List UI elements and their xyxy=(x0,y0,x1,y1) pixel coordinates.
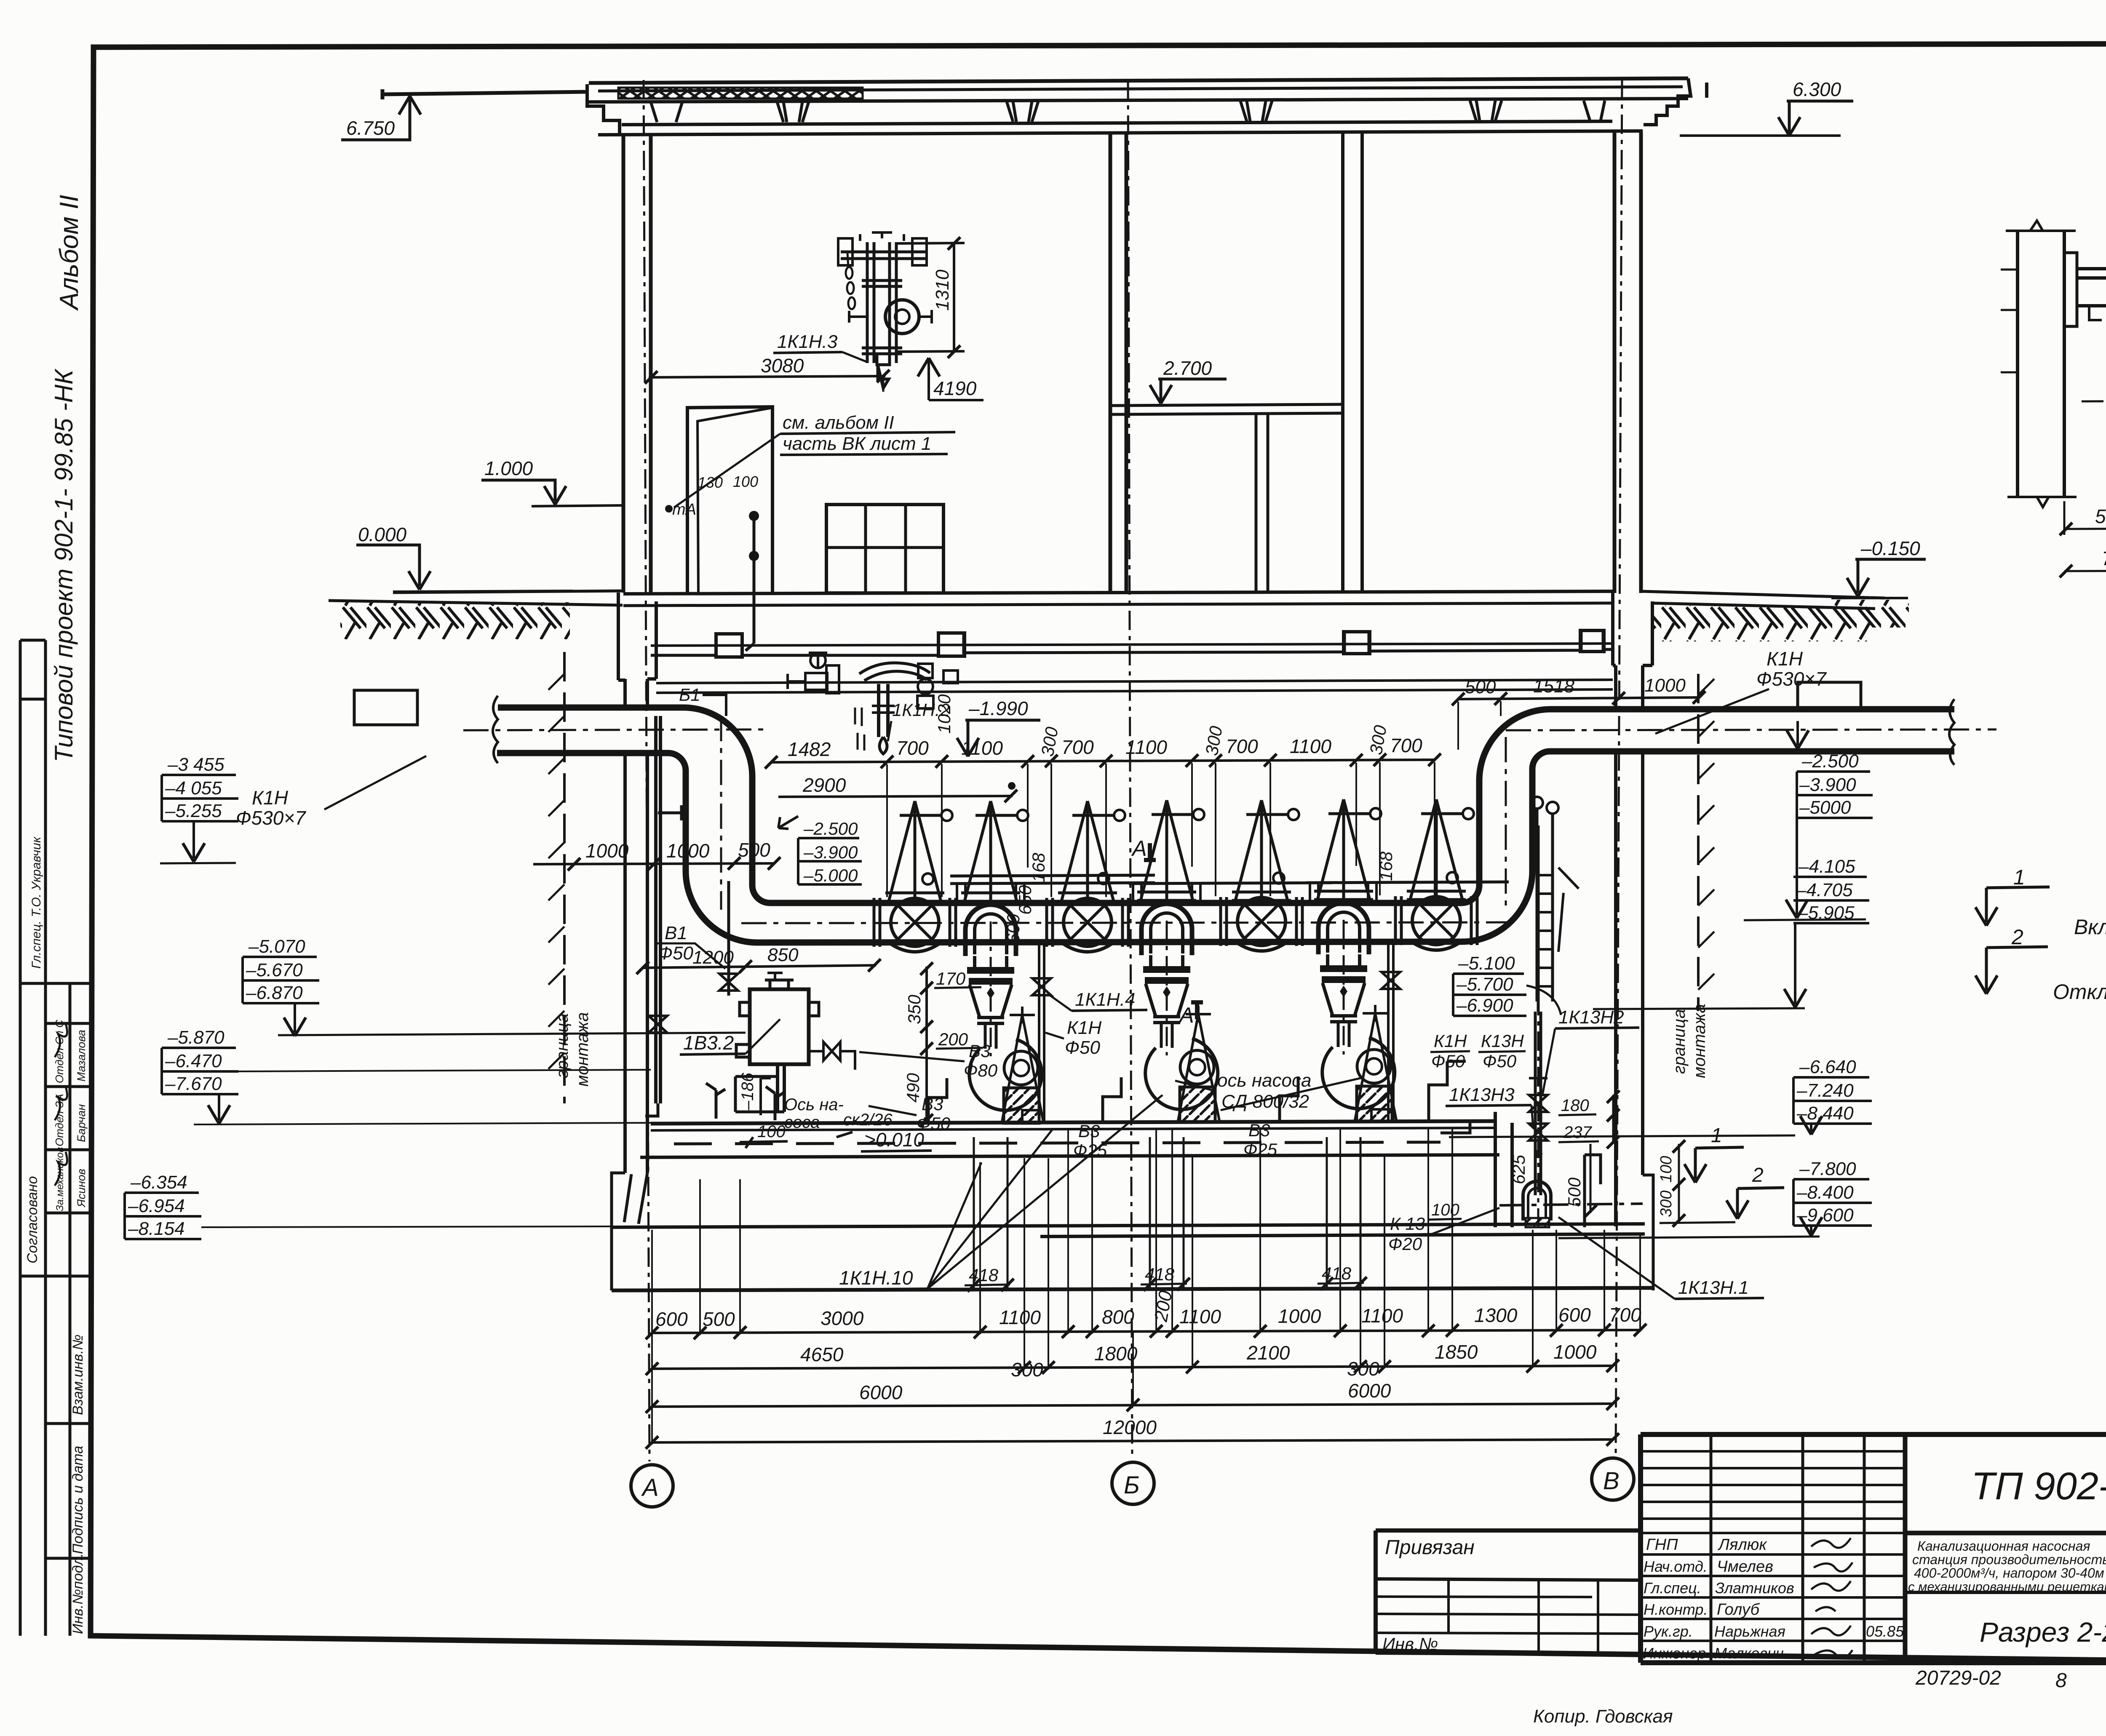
boundary line montage right xyxy=(1670,674,1714,1078)
svg-text:1100: 1100 xyxy=(999,1306,1041,1328)
svg-text:Рук.гр.: Рук.гр. xyxy=(1644,1623,1693,1640)
right riser elbow xyxy=(1462,699,1996,942)
K13 riser pipe xyxy=(1529,825,1547,1228)
dim 4190 xyxy=(918,358,984,400)
svg-text:1: 1 xyxy=(2013,865,2025,889)
left elevation stack -5.870 xyxy=(162,1027,651,1124)
dim 1310 xyxy=(897,237,965,358)
A-A dim 500 xyxy=(2060,501,2106,535)
title big cell divider xyxy=(1905,1434,2106,1663)
svg-text:168: 168 xyxy=(1029,852,1048,882)
svg-text:1100: 1100 xyxy=(1179,1306,1221,1327)
svg-text:–3.900: –3.900 xyxy=(1799,775,1856,795)
elevation 6.300 xyxy=(1680,78,1853,136)
drain pipe under V3 xyxy=(1371,943,1400,1121)
svg-text:А: А xyxy=(641,1474,659,1501)
svg-text:–8.440: –8.440 xyxy=(1796,1103,1854,1124)
svg-text:2: 2 xyxy=(1752,1164,1764,1186)
roof second chord xyxy=(598,87,1683,91)
svg-text:Ф50: Ф50 xyxy=(1065,1037,1100,1058)
svg-text:–4.105: –4.105 xyxy=(1798,856,1855,877)
svg-text:–5.700: –5.700 xyxy=(1456,974,1513,995)
svg-text:–2.500: –2.500 xyxy=(1801,751,1859,772)
level -1.990 xyxy=(957,697,1040,756)
hose pipe at sump riser xyxy=(1429,1061,1466,1120)
svg-text:350: 350 xyxy=(904,994,924,1024)
slope label xyxy=(837,1129,932,1151)
svg-text:100: 100 xyxy=(1431,1201,1459,1219)
svg-text:–7.240: –7.240 xyxy=(1796,1080,1854,1101)
svg-text:монтажа: монтажа xyxy=(573,1012,592,1087)
svg-text:Нарьжная: Нарьжная xyxy=(1714,1623,1785,1640)
dim row 500 1518 1000 xyxy=(1452,675,1705,750)
elevation 0.000 xyxy=(356,523,573,592)
title block xyxy=(1641,1434,2106,1663)
elevation stack -2.500 -3.900 -5000 right xyxy=(1786,721,1873,918)
svg-text:Копир. Гдовская: Копир. Гдовская xyxy=(1533,1706,1673,1727)
svg-text:Златников: Златников xyxy=(1715,1579,1794,1597)
svg-text:ГНП: ГНП xyxy=(1646,1536,1678,1554)
svg-text:700: 700 xyxy=(1609,1304,1641,1326)
roof cross hatch band xyxy=(618,88,863,99)
dim 418 pump3 xyxy=(1318,1137,1367,1290)
svg-text:К1Н: К1Н xyxy=(252,787,289,809)
step mark 1 xyxy=(1684,1124,1744,1183)
svg-text:6.750: 6.750 xyxy=(346,117,395,139)
suction manifold xyxy=(741,903,1516,943)
level line -6.640 xyxy=(1449,1135,1795,1137)
svg-text:700: 700 xyxy=(1390,734,1422,756)
svg-text:1: 1 xyxy=(1711,1124,1722,1147)
crossbar over pumps xyxy=(950,875,1509,884)
svg-text:–5.100: –5.100 xyxy=(1458,953,1515,974)
svg-text:В1: В1 xyxy=(665,923,687,943)
elevation stack -7.800 -8.400 -9.600 xyxy=(1793,1159,1872,1236)
point tA riser xyxy=(665,501,759,651)
svg-text:–4.705: –4.705 xyxy=(1796,880,1853,900)
elevation 2.700 xyxy=(1150,357,1227,403)
svg-text:К13Н: К13Н xyxy=(1481,1031,1524,1051)
svg-text:Ф50: Ф50 xyxy=(658,943,693,964)
svg-text:–2.500: –2.500 xyxy=(803,819,858,839)
svg-text:100: 100 xyxy=(733,473,758,490)
svg-text:Согласовано: Согласовано xyxy=(24,1176,40,1263)
svg-text:см. альбом II: см. альбом II xyxy=(783,412,894,433)
label 1K1N.4 xyxy=(1048,989,1147,1011)
actuator cone above V3 xyxy=(1232,800,1299,900)
actuator cone above V2 xyxy=(1058,801,1125,901)
svg-text:Инженер: Инженер xyxy=(1643,1645,1706,1662)
svg-text:с механизированными решетками: с механизированными решетками xyxy=(1908,1579,2106,1594)
svg-text:170: 170 xyxy=(936,969,966,988)
svg-text:1482: 1482 xyxy=(788,738,831,760)
svg-text:–6.640: –6.640 xyxy=(1799,1057,1856,1077)
actuator cone above V4 xyxy=(1407,799,1474,900)
gate valve V4 xyxy=(1395,896,1477,950)
elevation stack -6.640 -7.240 -8.440 xyxy=(1793,1057,1872,1135)
actuator cone above pump3 xyxy=(1314,799,1381,900)
label V3 f25 second xyxy=(1243,1120,1277,1159)
dim row 1000 1000 500 xyxy=(533,839,780,871)
extension lines manifold dims xyxy=(887,762,1435,897)
svg-text:700: 700 xyxy=(2102,548,2106,569)
svg-text:500: 500 xyxy=(2095,505,2106,527)
svg-text:>0.010: >0.010 xyxy=(864,1129,924,1151)
svg-text:4650: 4650 xyxy=(800,1343,844,1365)
label 1K1N.10 xyxy=(836,1095,1163,1290)
pump 3 xyxy=(1318,903,1397,1122)
svg-text:2900: 2900 xyxy=(802,774,846,796)
label 1K1N.2 xyxy=(888,700,950,741)
dim 418 pump2 xyxy=(1141,1137,1190,1291)
svg-text:А: А xyxy=(1131,836,1147,861)
sidebar row rules xyxy=(20,640,92,1558)
pump 2 xyxy=(1141,904,1220,1123)
svg-text:–5.070: –5.070 xyxy=(248,936,305,957)
svg-text:1200: 1200 xyxy=(692,947,734,968)
binding box Privyazan xyxy=(1376,1530,1641,1654)
svg-text:1К13Н3: 1К13Н3 xyxy=(1449,1084,1515,1105)
ground floor slab xyxy=(623,591,1614,657)
svg-text:1100: 1100 xyxy=(961,737,1003,759)
svg-text:Включение насоса „ГНОМ“ 10-10: Включение насоса „ГНОМ“ 10-10 xyxy=(2074,915,2106,939)
elevation stack -5.100 -5.700 -6.900 xyxy=(1453,953,1561,1016)
svg-text:К1Н: К1Н xyxy=(1434,1031,1467,1051)
label 1K13N.1 xyxy=(1558,1217,1764,1299)
actuator cone above V1 xyxy=(885,801,952,901)
svg-text:Ясинов: Ясинов xyxy=(75,1169,88,1208)
svg-text:700: 700 xyxy=(1226,735,1258,757)
svg-text:Нач.отд.: Нач.отд. xyxy=(1644,1558,1708,1575)
wash tank 1V3.2 xyxy=(735,973,855,1112)
svg-text:1К1Н.4: 1К1Н.4 xyxy=(1075,989,1135,1010)
svg-text:490: 490 xyxy=(903,1073,923,1103)
basement floor lines xyxy=(612,1121,1653,1290)
svg-text:монтажа: монтажа xyxy=(1690,1004,1709,1078)
svg-text:6.300: 6.300 xyxy=(1793,78,1841,100)
svg-text:За.механиков: За.механиков xyxy=(54,1147,66,1211)
step mark 2 xyxy=(1726,1164,1784,1219)
svg-text:граница: граница xyxy=(1670,1009,1689,1074)
svg-text:–7.670: –7.670 xyxy=(165,1074,222,1094)
basement left wall xyxy=(612,679,647,1290)
roof ribs xyxy=(651,101,1605,122)
B1 drop pipe to tank xyxy=(719,881,738,996)
svg-text:600: 600 xyxy=(1003,913,1023,943)
svg-text:1К13Н2: 1К13Н2 xyxy=(1558,1007,1624,1028)
svg-text:Альбом II: Альбом II xyxy=(55,195,84,311)
pump 1 xyxy=(965,905,1044,1124)
svg-text:1000: 1000 xyxy=(666,840,710,862)
svg-text:Ф50: Ф50 xyxy=(1483,1051,1517,1071)
svg-text:К 13: К 13 xyxy=(1390,1214,1425,1234)
door leaf xyxy=(687,407,772,594)
svg-text:700: 700 xyxy=(896,737,929,759)
svg-text:1300: 1300 xyxy=(1474,1304,1518,1326)
ceiling beam sections xyxy=(716,634,742,657)
svg-text:1310: 1310 xyxy=(932,270,953,311)
svg-text:20729-02: 20729-02 xyxy=(1915,1667,2001,1689)
left eave steps xyxy=(587,84,620,135)
label V3 f25 first xyxy=(1073,1121,1107,1160)
svg-text:1800: 1800 xyxy=(1094,1343,1138,1365)
svg-text:0.000: 0.000 xyxy=(358,523,407,545)
svg-text:Типовой проект 902-1- 99.85: Типовой проект 902-1- 99.85 -НК xyxy=(50,368,78,762)
svg-text:–4 055: –4 055 xyxy=(165,778,222,799)
left wall column xyxy=(623,135,651,594)
svg-text:–6.354: –6.354 xyxy=(130,1172,187,1193)
svg-text:–6.900: –6.900 xyxy=(1456,995,1513,1016)
label V3 f80 xyxy=(859,1041,998,1080)
svg-text:625: 625 xyxy=(1509,1154,1529,1184)
svg-text:Барчан: Барчан xyxy=(75,1104,88,1142)
dim 418 pump1 xyxy=(965,1137,1014,1292)
axis circle A xyxy=(631,1465,673,1507)
valve stand 1K1N.3 xyxy=(838,232,932,388)
svg-text:1К1Н.10: 1К1Н.10 xyxy=(839,1267,913,1289)
extension lines to dims xyxy=(652,1127,1640,1445)
svg-text:1000: 1000 xyxy=(1553,1341,1597,1363)
signatures xyxy=(1811,1538,1852,1658)
basement ceiling with downstands xyxy=(651,631,1613,655)
axis circle V xyxy=(1592,1458,1634,1500)
svg-text:2100: 2100 xyxy=(1246,1342,1290,1364)
ladder xyxy=(1531,797,1579,1002)
svg-text:3000: 3000 xyxy=(820,1307,864,1329)
svg-text:05.85: 05.85 xyxy=(1866,1623,1904,1640)
label B1 f50 xyxy=(655,923,725,969)
dim 1200 850 xyxy=(636,945,881,974)
svg-text:–6.470: –6.470 xyxy=(165,1051,222,1071)
elevation stack -4.105 -4.705 -5.905 xyxy=(1784,856,1869,1007)
label K1N f530x7 left xyxy=(236,756,426,829)
svg-text:–186: –186 xyxy=(738,1072,757,1111)
left elbow to manifold xyxy=(686,871,770,943)
svg-text:2.700: 2.700 xyxy=(1163,357,1212,379)
svg-text:–8.400: –8.400 xyxy=(1796,1182,1854,1203)
svg-text:Канализационная насосная: Канализационная насосная xyxy=(1917,1538,2090,1554)
title outer xyxy=(1641,1434,2106,1663)
small faucet symbols xyxy=(706,1083,785,1120)
label K13 f20 xyxy=(1386,1208,1499,1254)
svg-text:граница: граница xyxy=(553,1013,572,1078)
svg-text:1850: 1850 xyxy=(1435,1341,1478,1363)
svg-text:Ф530×7: Ф530×7 xyxy=(236,807,306,829)
sidebar vertical rules xyxy=(20,640,70,1636)
left elevation stack -5.070 xyxy=(243,936,746,1036)
label V3 f50 xyxy=(869,1094,951,1133)
svg-text:500: 500 xyxy=(1465,677,1496,697)
roof rib underside xyxy=(622,121,1612,125)
actuator cone above pump2 xyxy=(1137,800,1204,900)
note pump GNOM off xyxy=(1975,925,2106,1004)
pipe fitting cluster 1K1N.2 xyxy=(788,653,958,754)
svg-text:–5.905: –5.905 xyxy=(1797,903,1855,923)
svg-text:600: 600 xyxy=(655,1308,688,1330)
svg-text:Мазалова: Мазалова xyxy=(75,1030,88,1082)
svg-text:соса: соса xyxy=(784,1113,820,1132)
center column (axis B) xyxy=(1110,132,1126,594)
gate valve V1 xyxy=(874,898,956,952)
svg-text:–0.150: –0.150 xyxy=(1860,537,1920,559)
level line -5.905 right xyxy=(1593,1008,1805,1009)
gate valve V2 xyxy=(1047,898,1128,952)
svg-text:–1.990: –1.990 xyxy=(968,697,1028,719)
level line -8.440 low xyxy=(1558,1237,1820,1238)
svg-text:237: 237 xyxy=(1563,1123,1592,1142)
svg-text:Гл.спец.: Гл.спец. xyxy=(1644,1579,1701,1597)
svg-text:В3: В3 xyxy=(922,1094,943,1114)
level box -2.500 -3.900 -5.000 left xyxy=(778,816,862,885)
roof slab top line xyxy=(588,99,1688,102)
svg-text:700: 700 xyxy=(1061,736,1094,758)
svg-text:Взам.инв.№: Взам.инв.№ xyxy=(70,1335,86,1415)
svg-text:Разрез 2-2: Разрез 2-2 xyxy=(1980,1616,2106,1648)
svg-text:300: 300 xyxy=(1011,1359,1043,1381)
label K1N f530x7 right xyxy=(1655,648,1827,734)
right eave steps xyxy=(1644,78,1707,125)
svg-text:Ф80: Ф80 xyxy=(964,1060,998,1080)
svg-text:6000: 6000 xyxy=(1348,1380,1391,1402)
thrust block right xyxy=(1798,682,1861,710)
left sidebar stamp column xyxy=(20,195,92,1636)
svg-text:Лялюк: Лялюк xyxy=(1717,1536,1767,1554)
svg-text:100: 100 xyxy=(757,1122,786,1141)
svg-text:В3: В3 xyxy=(969,1041,990,1061)
A-A dim 700 xyxy=(2060,548,2106,577)
roof assembly xyxy=(382,78,1707,135)
left wall axis xyxy=(644,80,649,1461)
right wall basement pedestal xyxy=(1613,593,1652,665)
note pump GNOM on xyxy=(1975,865,2106,939)
svg-text:Ф50: Ф50 xyxy=(1431,1051,1465,1071)
svg-text:В3: В3 xyxy=(1248,1120,1270,1140)
label K1N f50 mid xyxy=(1045,1018,1101,1058)
sub partition below shelf xyxy=(1256,414,1268,593)
svg-text:400-2000м³/ч, напором 30-40м: 400-2000м³/ч, напором 30-40м xyxy=(1914,1565,2104,1581)
elevation -0.150 xyxy=(1831,537,1926,628)
svg-text:300: 300 xyxy=(1347,1358,1379,1380)
right wall footing xyxy=(1643,1175,1653,1290)
svg-text:1К1Н.3: 1К1Н.3 xyxy=(777,331,838,352)
svg-text:Ф530×7: Ф530×7 xyxy=(1756,668,1827,690)
axis pump label xyxy=(784,1095,893,1132)
left elevation stack -6.354 xyxy=(125,1123,651,1239)
gate valve V3 xyxy=(1221,897,1302,951)
svg-text:2: 2 xyxy=(2011,925,2023,949)
svg-text:4190: 4190 xyxy=(933,377,977,399)
svg-text:–6.954: –6.954 xyxy=(128,1196,185,1216)
dim 100 xyxy=(740,1122,788,1148)
svg-text:850: 850 xyxy=(767,945,799,965)
axis circle B xyxy=(1112,1462,1154,1504)
svg-text:ТП 902-1 – 99.85-НК: ТП 902-1 – 99.85-НК xyxy=(1971,1465,2106,1508)
svg-text:500: 500 xyxy=(1564,1177,1584,1207)
svg-text:–5.870: –5.870 xyxy=(167,1027,224,1048)
svg-text:Ф50: Ф50 xyxy=(917,1114,951,1133)
svg-text:–5.255: –5.255 xyxy=(165,801,222,821)
svg-text:1000: 1000 xyxy=(1278,1305,1321,1327)
svg-text:Отключение насоса „ГНОМ“ 10-10: Отключение насоса „ГНОМ“ 10-10 xyxy=(2053,980,2106,1004)
building columns and walls xyxy=(618,79,1652,1461)
svg-text:1.000: 1.000 xyxy=(484,457,533,479)
svg-text:ск2/26: ск2/26 xyxy=(843,1111,893,1129)
svg-text:1В3.2: 1В3.2 xyxy=(683,1032,734,1054)
svg-text:В: В xyxy=(1603,1467,1620,1495)
basement ceiling soffit line xyxy=(651,644,1613,646)
right wall column xyxy=(1614,131,1641,593)
hose pipe at pump 1 xyxy=(928,1076,1298,1122)
svg-text:1К13Н.1: 1К13Н.1 xyxy=(1678,1277,1749,1298)
svg-text:500: 500 xyxy=(703,1308,735,1330)
label 1K13N3 xyxy=(1446,1084,1533,1129)
svg-text:8: 8 xyxy=(2055,1669,2067,1692)
sidebar signatures xyxy=(55,1023,67,1186)
left wall footing xyxy=(612,1173,647,1290)
svg-text:Привязан: Привязан xyxy=(1385,1536,1475,1559)
svg-text:–3.900: –3.900 xyxy=(803,842,858,862)
staff grid verticals xyxy=(1711,1434,1864,1663)
label 1V3.2 xyxy=(680,1019,780,1055)
staff grid rows xyxy=(1641,1451,1905,1641)
note see album II xyxy=(674,412,955,507)
svg-text:1000: 1000 xyxy=(1644,675,1686,696)
thrust block left xyxy=(354,690,417,725)
svg-text:–5.670: –5.670 xyxy=(246,960,303,980)
svg-text:Чмелев: Чмелев xyxy=(1717,1558,1773,1576)
bottom dim row 1 xyxy=(646,1289,1646,1339)
bottom dim row 3 xyxy=(646,1380,1619,1413)
svg-text:–5000: –5000 xyxy=(1799,797,1851,818)
section mark A lower xyxy=(1178,1002,1203,1028)
labels K1N K13N f50 xyxy=(1430,1031,1526,1071)
section mark A upper xyxy=(1131,836,1156,861)
right wall axis xyxy=(1616,79,1622,1455)
A-A wall xyxy=(2001,221,2077,507)
svg-text:К1Н: К1Н xyxy=(1767,648,1803,670)
elevation 6.750 xyxy=(341,96,421,140)
svg-text:Отдел Сп С: Отдел Сп С xyxy=(53,1020,66,1083)
left canopy line xyxy=(382,89,587,99)
svg-text:1020: 1020 xyxy=(934,694,954,734)
svg-text:800: 800 xyxy=(1102,1306,1134,1328)
dim 2900 xyxy=(778,774,1017,802)
ground level left xyxy=(329,591,623,639)
left elevation stack -3.455 xyxy=(160,754,238,863)
svg-text:Инв.№: Инв.№ xyxy=(1382,1634,1438,1654)
A-A bracket xyxy=(2064,250,2106,326)
svg-text:200: 200 xyxy=(938,1029,968,1049)
svg-text:600: 600 xyxy=(1558,1304,1591,1326)
dim row 1482-700 chain xyxy=(765,724,1441,769)
center axis line xyxy=(1128,80,1132,1458)
svg-text:100: 100 xyxy=(1657,1156,1675,1183)
svg-text:500: 500 xyxy=(738,839,770,861)
dim 180 237 500 xyxy=(1558,1090,1620,1218)
monorail beam lines xyxy=(656,680,1613,693)
svg-text:К1Н: К1Н xyxy=(1067,1018,1101,1038)
svg-text:6000: 6000 xyxy=(859,1381,903,1403)
svg-text:Инв.№подл.: Инв.№подл. xyxy=(70,1553,86,1634)
label B1 upper xyxy=(679,685,726,716)
svg-text:168: 168 xyxy=(1376,851,1396,881)
svg-text:1518: 1518 xyxy=(1533,676,1574,697)
svg-text:СД 800/32: СД 800/32 xyxy=(1221,1091,1309,1112)
bottom dim row 4 xyxy=(646,1416,1619,1449)
partition wall right room xyxy=(1343,131,1362,593)
dim 3080 xyxy=(645,355,890,392)
label 1K13N2 xyxy=(1542,1007,1639,1095)
